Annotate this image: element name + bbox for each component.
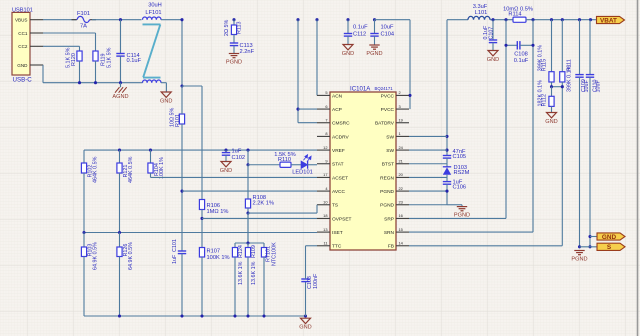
svg-text:GND: GND (17, 63, 28, 68)
svg-text:15: 15 (399, 227, 403, 232)
svg-text:R106: R106 (207, 203, 221, 209)
svg-text:SW: SW (386, 134, 394, 140)
svg-text:REGN: REGN (380, 175, 394, 181)
svg-text:C107: C107 (489, 27, 495, 40)
svg-text:22: 22 (399, 186, 403, 191)
svg-text:464K 0.5%: 464K 0.5% (92, 156, 98, 183)
svg-text:GND: GND (545, 119, 557, 125)
svg-text:2: 2 (399, 90, 401, 95)
svg-text:C108: C108 (514, 51, 528, 57)
svg-text:1: 1 (399, 131, 401, 136)
svg-text:R124: R124 (238, 245, 244, 258)
svg-text:3: 3 (399, 104, 401, 109)
svg-text:9: 9 (325, 159, 327, 164)
svg-text:13.6K 1%: 13.6K 1% (251, 261, 257, 285)
svg-text:23: 23 (399, 200, 403, 205)
svg-text:PGND: PGND (226, 59, 242, 65)
svg-text:S: S (607, 244, 612, 251)
svg-text:R109: R109 (251, 245, 257, 258)
svg-text:USB-C: USB-C (13, 77, 33, 84)
svg-text:ISET: ISET (332, 230, 343, 236)
svg-text:CMSRC: CMSRC (332, 121, 350, 127)
svg-text:RS2M: RS2M (454, 170, 470, 176)
svg-text:SW: SW (386, 148, 394, 154)
svg-text:100K 1%: 100K 1% (207, 255, 230, 261)
svg-text:5: 5 (325, 90, 327, 95)
svg-text:30uH: 30uH (148, 3, 162, 9)
svg-text:2Ω 5%: 2Ω 5% (224, 19, 230, 36)
svg-text:OVPSET: OVPSET (332, 216, 352, 222)
svg-text:USB101: USB101 (12, 7, 33, 13)
svg-text:1uF: 1uF (232, 149, 242, 155)
svg-text:R112: R112 (542, 94, 548, 107)
svg-text:100nF: 100nF (313, 273, 319, 289)
svg-text:C112: C112 (353, 31, 366, 37)
svg-text:SRP: SRP (384, 216, 394, 222)
svg-text:STAT: STAT (332, 162, 344, 168)
svg-text:64.9K 0.5%: 64.9K 0.5% (128, 242, 134, 270)
svg-text:1uF: 1uF (172, 254, 178, 264)
svg-text:0.1uF: 0.1uF (127, 58, 142, 64)
svg-text:5.1K 5%: 5.1K 5% (107, 47, 113, 68)
svg-text:0.1uF: 0.1uF (353, 24, 368, 30)
svg-text:C102: C102 (232, 155, 246, 161)
svg-text:ACN: ACN (332, 93, 343, 99)
svg-text:12: 12 (323, 145, 327, 150)
svg-text:10uF: 10uF (381, 24, 394, 30)
svg-text:R120: R120 (71, 53, 77, 66)
svg-text:PVCC: PVCC (381, 107, 395, 113)
svg-text:BATDRV: BATDRV (375, 121, 395, 127)
svg-text:GND: GND (220, 168, 232, 174)
svg-text:10uF: 10uF (596, 80, 602, 93)
svg-text:2.2nF: 2.2nF (240, 49, 255, 55)
svg-text:13: 13 (323, 227, 327, 232)
svg-text:1MΩ 1%: 1MΩ 1% (207, 209, 229, 215)
svg-text:GND: GND (160, 98, 172, 104)
svg-text:ACP: ACP (332, 107, 342, 113)
svg-text:TS: TS (332, 203, 338, 209)
svg-text:VBUS: VBUS (15, 18, 28, 23)
svg-text:2.2K 1%: 2.2K 1% (253, 201, 275, 207)
svg-text:PGND: PGND (366, 51, 382, 57)
svg-text:C101: C101 (172, 239, 178, 252)
svg-text:64.9K 0.5%: 64.9K 0.5% (92, 242, 98, 270)
svg-text:GND: GND (342, 51, 354, 57)
svg-text:R110: R110 (278, 157, 291, 163)
svg-text:FB: FB (388, 244, 394, 250)
svg-text:R115: R115 (542, 59, 548, 72)
svg-text:CC2: CC2 (18, 44, 28, 49)
svg-text:0.1uF: 0.1uF (514, 58, 529, 64)
svg-text:19: 19 (399, 118, 403, 123)
svg-text:7: 7 (325, 118, 327, 123)
svg-text:GND: GND (487, 57, 499, 63)
svg-text:R107: R107 (207, 248, 221, 254)
svg-text:C106: C106 (453, 184, 467, 190)
svg-text:8: 8 (325, 131, 327, 136)
svg-text:AGND: AGND (112, 94, 128, 100)
svg-text:ACSET: ACSET (332, 175, 348, 181)
svg-text:TTC: TTC (332, 244, 342, 250)
svg-text:PGND: PGND (380, 189, 394, 195)
svg-text:7A: 7A (80, 24, 87, 30)
svg-text:464K 0.5%: 464K 0.5% (128, 156, 134, 183)
svg-text:R114: R114 (508, 12, 521, 18)
svg-text:16: 16 (399, 213, 403, 218)
svg-text:R101: R101 (175, 114, 181, 127)
svg-text:L101: L101 (475, 10, 488, 16)
svg-text:NTC100K: NTC100K (272, 242, 278, 266)
svg-text:PGND: PGND (380, 203, 394, 209)
svg-text:100K 1%: 100K 1% (159, 157, 165, 179)
svg-text:F101: F101 (77, 11, 90, 17)
svg-text:AVCC: AVCC (332, 189, 346, 195)
svg-text:6: 6 (325, 104, 327, 109)
svg-text:GND: GND (602, 234, 617, 241)
svg-text:18: 18 (323, 213, 327, 218)
svg-text:11: 11 (323, 241, 327, 246)
svg-text:C104: C104 (381, 31, 395, 37)
svg-text:10uF: 10uF (584, 80, 590, 93)
svg-text:LF101: LF101 (145, 10, 161, 16)
svg-text:VBAT: VBAT (600, 17, 617, 24)
svg-text:BQ24171: BQ24171 (375, 86, 394, 91)
svg-text:13.6K 1%: 13.6K 1% (238, 261, 244, 285)
svg-text:GND: GND (299, 325, 311, 331)
svg-text:R113: R113 (237, 22, 243, 35)
svg-text:VREF: VREF (332, 148, 345, 154)
svg-text:R111: R111 (567, 59, 573, 71)
svg-text:21: 21 (399, 159, 403, 164)
svg-text:PGND: PGND (454, 212, 470, 218)
svg-text:LED101: LED101 (292, 169, 313, 175)
svg-text:C105: C105 (453, 154, 467, 160)
svg-text:17: 17 (323, 172, 327, 177)
svg-text:CC1: CC1 (18, 31, 28, 36)
svg-text:PGND: PGND (571, 256, 587, 262)
svg-text:IC101A: IC101A (350, 85, 371, 92)
svg-text:ACDRV: ACDRV (332, 134, 350, 140)
svg-text:PVCC: PVCC (381, 93, 395, 99)
svg-text:BTST: BTST (382, 162, 394, 168)
svg-text:SRN: SRN (384, 230, 395, 236)
